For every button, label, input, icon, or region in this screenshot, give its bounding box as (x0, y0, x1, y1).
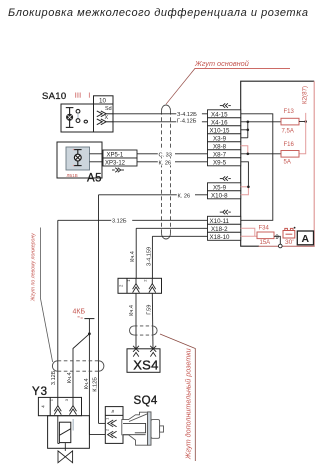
svg-text:A: A (302, 233, 310, 245)
SA10 connector pins (chevrons) (97, 111, 113, 125)
wire X4-15 to X10-11 inside block (241, 114, 273, 221)
pin X3-9 (208, 134, 241, 143)
connector mate symbol under XP boxes (112, 168, 124, 172)
Y3 body (48, 416, 90, 449)
svg-text:1: 1 (106, 418, 110, 420)
wire labels at Y3 (51, 370, 73, 385)
svg-text:X18-2: X18-2 (211, 226, 228, 233)
svg-text:X8-8: X8-8 (213, 143, 227, 150)
svg-text:К. 26: К. 26 (159, 161, 172, 167)
svg-text:X18-10: X18-10 (210, 234, 231, 241)
svg-text:SA10: SA10 (42, 91, 66, 102)
A5 lamp tiny label (67, 173, 78, 178)
svg-text:X5-9: X5-9 (213, 184, 227, 191)
harness label left: Жгут по левому лонжерону (30, 228, 52, 363)
svg-text:X10-8: X10-8 (211, 192, 228, 199)
wire X8-8 red to X8-7 node (241, 146, 248, 154)
junction dot at F13 output (304, 120, 307, 123)
pin X9-5 (208, 158, 241, 167)
pin X5-9 (208, 183, 241, 192)
svg-text:30': 30' (285, 239, 294, 246)
wire Кч.4 from 4КБ to SQ4 (84, 319, 105, 435)
wire XP3-12 to X9-5 (137, 158, 208, 166)
svg-text:X4-15: X4-15 (211, 111, 228, 118)
connector mate symbol group 1 (220, 103, 231, 107)
wire X10-8 red (241, 187, 249, 195)
svg-text:3.12Б: 3.12Б (51, 370, 57, 385)
svg-text:X9-5: X9-5 (213, 159, 227, 166)
lamp unit A5 (57, 142, 102, 178)
svg-text:9: 9 (275, 234, 279, 241)
svg-text:ЛБ1В: ЛБ1В (67, 173, 78, 178)
svg-text:2: 2 (106, 429, 110, 431)
connector XP5-1 (90, 150, 138, 159)
wire SA10 to X4-16 (113, 117, 208, 124)
pin X8-7 (208, 150, 241, 159)
XS4 socket pin crosses (133, 346, 156, 357)
svg-text:К2(87): К2(87) (302, 86, 309, 104)
fuse F16 (281, 142, 299, 165)
connector XP3-12 (90, 158, 138, 167)
pin X10-15 (208, 126, 241, 135)
svg-text:3.12Б: 3.12Б (112, 218, 127, 224)
terminal node circle (279, 244, 283, 248)
fuse F13 (281, 109, 306, 134)
svg-text:Кч.4: Кч.4 (129, 305, 135, 316)
wire X18-2 red to F34 (241, 228, 255, 236)
A5 designator (87, 173, 102, 185)
A5 lamp symbol (74, 150, 82, 166)
svg-text:F34: F34 (259, 225, 270, 231)
svg-text:7,5А: 7,5А (282, 128, 294, 134)
Y3 valve symbol (58, 443, 73, 463)
svg-text:X4-16: X4-16 (211, 119, 228, 126)
pin X10-11 (208, 216, 241, 225)
svg-text:F13: F13 (284, 109, 295, 115)
pin X4-16 (208, 118, 241, 127)
central unit block (241, 81, 315, 246)
svg-text:4КБ: 4КБ (73, 309, 86, 316)
svg-text:С. 33: С. 33 (159, 152, 172, 158)
svg-text:F16: F16 (284, 142, 295, 148)
wire К2(87) red (299, 86, 309, 154)
Y3 connector labels (40, 398, 69, 408)
connector block XS4 plug (118, 278, 162, 293)
svg-text:Кч.4: Кч.4 (67, 372, 73, 383)
harness label main: Жгут основной (166, 59, 290, 104)
wire F34 to terminal 30 (274, 236, 280, 244)
wire X9-5 to X5-9 node (241, 162, 249, 187)
wire X18-10 red to F34 (241, 235, 257, 237)
SQ4 connector label (110, 410, 115, 413)
switch SA10 label (42, 91, 66, 102)
Y3 connector (38, 397, 81, 415)
harness label: Жгут дополнительный розетки (160, 334, 195, 461)
wire X4-16/X10-15/X3-9 common (241, 122, 281, 138)
svg-text:SQ4: SQ4 (134, 395, 158, 407)
junction dot X8-7 (247, 153, 250, 156)
wire X18-2 to XS4 pin1 (130, 228, 207, 278)
socket XS4 (127, 349, 160, 373)
switch SA10 body (61, 96, 113, 132)
harness oval at Y3 (52, 361, 104, 371)
switch SA10 contact symbol (66, 108, 88, 128)
Y3 solenoid (58, 416, 73, 444)
SQ4 connector chevrons (106, 418, 117, 438)
svg-text:Жгут дополнительный розетки: Жгут дополнительный розетки (184, 348, 193, 460)
svg-text:Кч.4: Кч.4 (84, 378, 90, 389)
svg-text:А5: А5 (87, 173, 102, 185)
svg-text:Ь: Ь (110, 410, 115, 413)
svg-text:XS4: XS4 (133, 358, 158, 373)
wire SA10 to X4-15 (113, 110, 208, 118)
junction dot X5-9 (247, 186, 250, 189)
wire X18-10 to XS4 pin2 (147, 236, 208, 278)
connector mate symbol group 2 (220, 176, 231, 180)
svg-text:Г.59: Г.59 (147, 305, 153, 315)
SQ4 connector (105, 407, 123, 444)
wire XP5-1 to X8-7 (137, 150, 208, 158)
XS4 plug pin labels (119, 279, 148, 287)
red tick marks above SA10 (75, 93, 90, 98)
wire К.26 to X10-8 (99, 191, 208, 423)
svg-text:XP3-12: XP3-12 (105, 161, 126, 167)
fuse F34 (257, 225, 274, 246)
pin X18-10 (208, 232, 241, 241)
solenoid valve Y3 designator (32, 386, 48, 398)
splice node 4КБ (73, 309, 86, 319)
box A (297, 231, 313, 245)
XS4 plug chevrons (133, 278, 156, 292)
wire X8-7 to F16 (241, 153, 281, 155)
svg-text:Блокировка межколесого диффере: Блокировка межколесого дифференциала и р… (8, 7, 309, 19)
svg-text:15А: 15А (260, 240, 271, 246)
pin X18-2 (208, 224, 241, 233)
svg-text:X10-11: X10-11 (210, 218, 230, 225)
battery icon (283, 228, 295, 238)
junction dot on Кч.4 (88, 332, 91, 335)
svg-text:X3-9: X3-9 (213, 135, 227, 142)
svg-text:Y3: Y3 (32, 386, 48, 398)
svg-text:X8-7: X8-7 (213, 151, 227, 158)
title (8, 7, 309, 19)
svg-text:К. 26: К. 26 (178, 193, 191, 199)
pin X10-8 (208, 191, 241, 200)
wires XS4 plug to socket (136, 293, 153, 349)
harness oval at XS4 (130, 326, 158, 335)
wire X5-9 red stub (241, 186, 249, 188)
svg-text:К.12Б: К.12Б (92, 377, 98, 392)
wire labels at SQ4 (84, 377, 98, 392)
connector mate symbol group 3 (220, 210, 231, 214)
wire labels to XS4 (129, 305, 152, 316)
svg-text:Жгут основной: Жгут основной (194, 59, 249, 68)
svg-text:Sd: Sd (105, 106, 112, 112)
A5 inner lamp module (66, 147, 90, 170)
svg-text:Г-4.12Б: Г-4.12Б (177, 118, 197, 124)
SA10 pin labels (105, 106, 112, 121)
svg-text:X: X (105, 115, 109, 121)
svg-text:X10-15: X10-15 (210, 127, 231, 134)
svg-text:Жгут по левому лонжерону: Жгут по левому лонжерону (30, 233, 36, 302)
svg-text:5А: 5А (284, 159, 291, 165)
svg-text:З-4,159: З-4,159 (147, 247, 153, 266)
pin X8-8 (208, 142, 241, 151)
wire branch to Y3 pin 3 (73, 334, 89, 398)
pressure switch SQ4 designator (134, 395, 158, 407)
junction dots X4-16 net (247, 121, 250, 124)
Y3 connector chevrons (54, 397, 76, 414)
wire 3.12Б X10-11 to Y3 (58, 216, 208, 397)
pin X4-15 (208, 110, 241, 119)
svg-text:Кч.4: Кч.4 (130, 251, 136, 262)
svg-text:10: 10 (99, 98, 107, 105)
harness bundle main (dashed) (162, 105, 171, 239)
SQ4 body (122, 412, 164, 445)
